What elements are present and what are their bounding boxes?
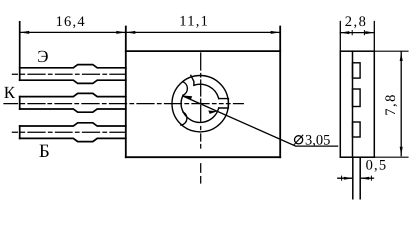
svg-text:0,5: 0,5 bbox=[366, 157, 388, 173]
svg-text:7,8: 7,8 bbox=[383, 93, 399, 116]
svg-text:К: К bbox=[4, 83, 16, 102]
svg-text:Э: Э bbox=[37, 47, 48, 66]
svg-text:Б: Б bbox=[39, 141, 50, 162]
svg-text:3,05: 3,05 bbox=[305, 133, 330, 149]
svg-text:2,8: 2,8 bbox=[345, 14, 368, 30]
svg-text:16,4: 16,4 bbox=[56, 14, 86, 30]
svg-text:11,1: 11,1 bbox=[179, 13, 209, 29]
